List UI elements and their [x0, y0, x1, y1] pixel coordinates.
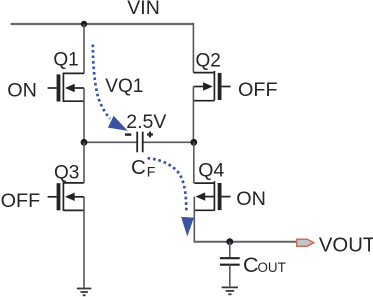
wire flying-cap rail down to Q4 drain — [193, 142, 195, 183]
polarity minus sign — [125, 133, 131, 135]
svg-text:F: F — [147, 163, 156, 179]
svg-text:ON: ON — [236, 188, 266, 210]
transistor Q1 — [48, 73, 84, 103]
svg-text:ON: ON — [7, 80, 37, 102]
transistor Q3 — [48, 181, 84, 211]
svg-text:Q3: Q3 — [54, 162, 79, 183]
svg-text:C: C — [131, 156, 146, 179]
terminal flag VOUT — [297, 239, 314, 246]
node junction at COUT — [226, 238, 233, 245]
ground symbol under COUT — [222, 287, 238, 294]
polarity plus sign — [147, 132, 153, 138]
blue arrow VQ1 (charge path) — [93, 45, 128, 131]
wire flying-cap rail down to Q3 drain — [83, 142, 85, 183]
wire Q1 source down to flying-cap rail — [83, 88, 85, 142]
wire Q2 drain to VIN — [192, 23, 194, 73]
wire output rail to VOUT — [194, 241, 297, 243]
node junction on VIN rail — [81, 21, 87, 27]
capacitor COUT — [229, 242, 231, 258]
wire flying-cap rail left segment — [84, 141, 136, 143]
transistor Q2 — [193, 71, 230, 101]
svg-text:2.5V: 2.5V — [126, 111, 166, 133]
wire flying-cap rail right segment — [144, 141, 194, 143]
svg-text:Q2: Q2 — [196, 51, 221, 72]
node junction left of CF — [81, 139, 88, 146]
blue arrow discharge path through Q4 — [148, 158, 194, 236]
svg-text:OUT: OUT — [258, 260, 286, 275]
node junction right of CF — [190, 139, 197, 146]
ground symbol under Q3 — [77, 289, 91, 296]
svg-text:OFF: OFF — [1, 190, 41, 212]
svg-text:OFF: OFF — [238, 79, 278, 101]
svg-text:VQ1: VQ1 — [105, 76, 143, 97]
svg-text:Q1: Q1 — [53, 50, 78, 71]
transistor Q4 — [194, 181, 230, 211]
capacitor CF — [137, 132, 143, 153]
svg-text:VOUT: VOUT — [319, 234, 373, 256]
wire Q3 source down to ground — [83, 197, 85, 288]
wire Q4 source down to output rail — [193, 197, 195, 242]
wire VIN rail — [11, 23, 194, 25]
svg-text:VIN: VIN — [127, 0, 160, 19]
svg-text:Q4: Q4 — [198, 159, 224, 181]
wire Q1 drain to VIN — [83, 24, 85, 73]
wire Q2 source down to flying-cap rail — [192, 87, 194, 143]
svg-text:C: C — [243, 253, 259, 277]
